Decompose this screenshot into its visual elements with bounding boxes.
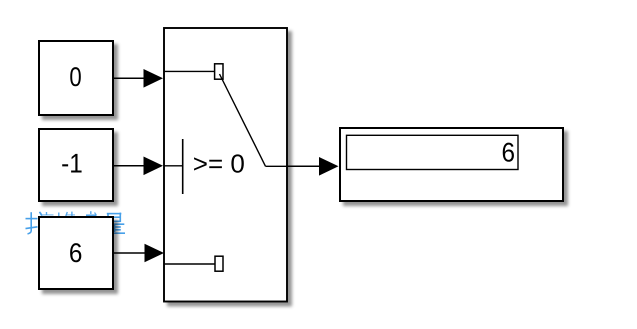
char 1 top of kong <box>41 212 59 216</box>
wire block0 to switch <box>114 69 163 88</box>
constant block -1 <box>39 129 113 201</box>
wire block6 to switch <box>114 244 164 263</box>
char 1 hand radical <box>26 212 42 234</box>
switch internal: contact 1 <box>215 64 223 79</box>
switch internal: contact 3 <box>215 256 223 271</box>
wire switch to display <box>288 157 339 176</box>
annotation text (blue, partially hidden behind constant block) <box>26 211 126 234</box>
constant block 6 <box>39 217 113 289</box>
wire block-1 to switch <box>114 157 163 176</box>
switch internal: port3 line <box>164 263 215 265</box>
svg-text:0: 0 <box>69 62 81 92</box>
svg-text:6: 6 <box>69 238 83 268</box>
switch internal: threshold tick <box>182 139 184 194</box>
char 2 top strokes <box>66 212 75 217</box>
svg-text:-1: -1 <box>61 148 83 178</box>
switch internal: port2 line <box>164 165 183 167</box>
switch internal: output line <box>266 165 289 167</box>
switch block U1 <box>164 28 287 302</box>
switch internal: diagonal arm <box>220 74 266 166</box>
constant block 0 <box>39 41 113 115</box>
switch internal: port1 line <box>164 70 215 72</box>
char 3 top (lid) <box>86 211 97 215</box>
char 4 liang <box>106 213 125 234</box>
display block <box>340 128 563 201</box>
svg-text:6: 6 <box>502 138 516 168</box>
svg-text:>= 0: >= 0 <box>193 149 245 179</box>
